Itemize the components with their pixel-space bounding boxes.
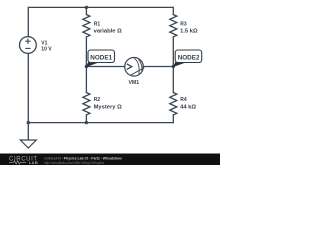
ground stem xyxy=(27,123,29,140)
svg-text:Mystery Ω: Mystery Ω xyxy=(94,105,123,111)
wire bottom rail xyxy=(28,122,173,124)
wire R4 bottom stem xyxy=(172,115,174,123)
wire top rail xyxy=(28,7,173,36)
svg-text:R3: R3 xyxy=(180,22,187,28)
svg-text:10 V: 10 V xyxy=(41,46,52,52)
wire V1 bottom to rail xyxy=(27,54,29,123)
svg-text:1.5 kΩ: 1.5 kΩ xyxy=(180,29,198,35)
resistor R2 xyxy=(83,93,90,115)
svg-text:http://circuitlab.com/c/69b7e5: http://circuitlab.com/c/69b7e5bg/7e5bg4b… xyxy=(44,161,104,165)
node NODE2 box xyxy=(175,50,202,63)
V1 plus sign xyxy=(25,39,30,49)
svg-text:variable Ω: variable Ω xyxy=(94,29,123,35)
voltage source V1 circle xyxy=(20,37,37,54)
svg-text:R1: R1 xyxy=(94,22,101,28)
svg-text:44 kΩ: 44 kΩ xyxy=(180,105,196,111)
junction dot NODE1 xyxy=(85,65,88,68)
wire voltmeter right xyxy=(143,66,173,68)
resistor R1 xyxy=(83,15,90,37)
junction dot V1 bottom rail xyxy=(27,121,30,124)
junction dot R2 bottom rail xyxy=(85,121,88,124)
voltmeter VM1 xyxy=(125,58,145,77)
V1 minus sign xyxy=(25,47,30,49)
resistor R3 xyxy=(170,15,177,37)
node NODE1 box xyxy=(88,50,115,63)
wire left branch R1 stem xyxy=(85,7,87,14)
svg-text:NODE2: NODE2 xyxy=(178,54,200,61)
svg-text:R2: R2 xyxy=(94,97,101,103)
wire R3 to R4 (through NODE2 junction) xyxy=(172,37,174,93)
node NODE2 flag tail xyxy=(173,61,185,67)
svg-text:NODE1: NODE1 xyxy=(90,54,112,61)
svg-text:LAB: LAB xyxy=(29,160,38,165)
node NODE1 flag tail xyxy=(86,61,98,67)
svg-text:R4: R4 xyxy=(180,97,187,103)
resistor R4 xyxy=(170,93,177,115)
junction dot NODE2 xyxy=(172,65,175,68)
wire voltmeter left xyxy=(86,66,124,68)
wire R2 bottom stem xyxy=(85,115,87,123)
label V1 value xyxy=(41,22,198,111)
logo wire squiggle xyxy=(9,161,26,164)
svg-text:VM1: VM1 xyxy=(128,80,139,86)
watermark bar xyxy=(0,154,220,166)
junction dot top of R1 xyxy=(85,6,88,9)
ground symbol triangle xyxy=(20,140,36,148)
wire R1 to R2 (through NODE1 junction) xyxy=(85,37,87,93)
